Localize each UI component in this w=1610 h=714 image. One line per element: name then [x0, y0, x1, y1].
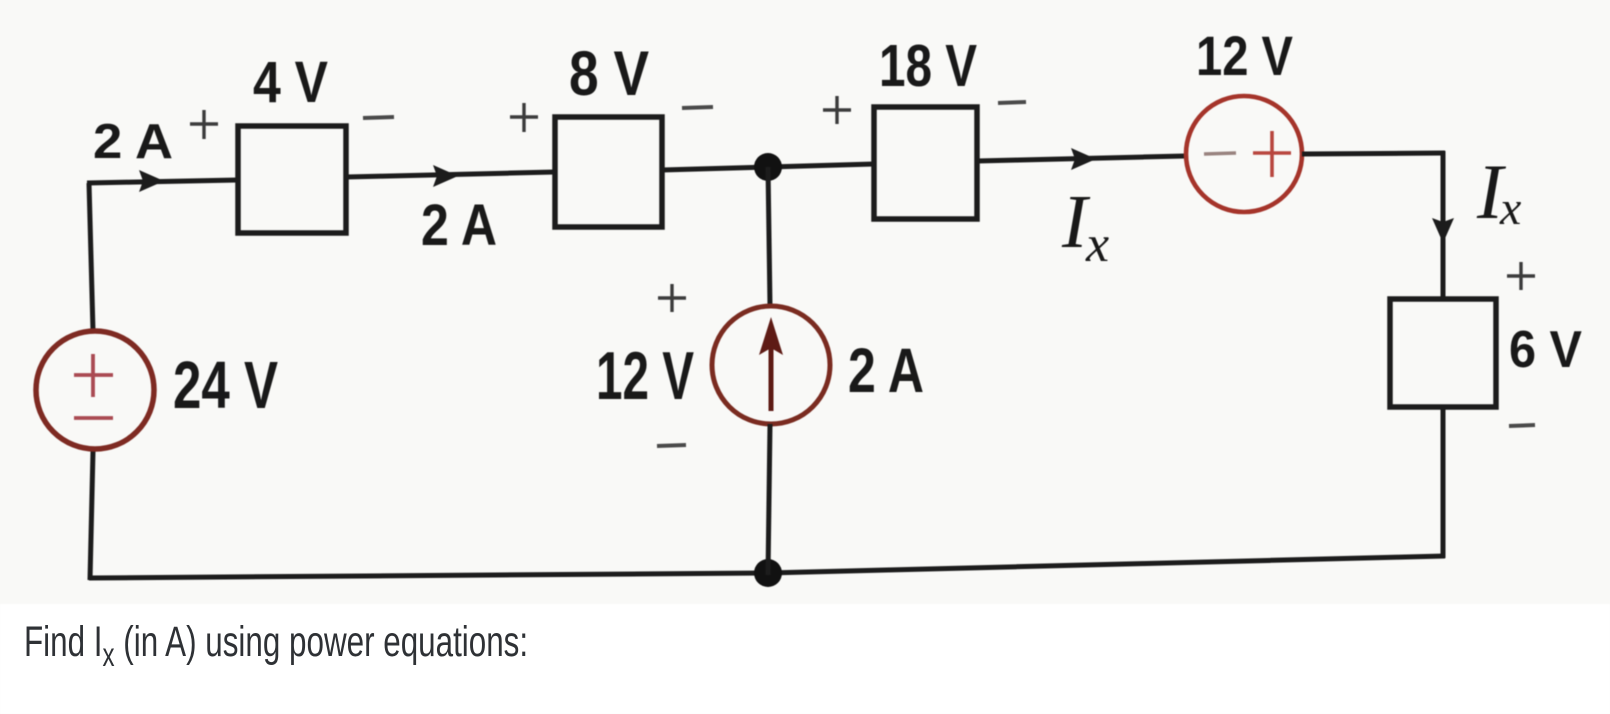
value label 12 V (top right source)	[1196, 24, 1293, 87]
polarity - (right of element 18V)	[998, 102, 1026, 103]
polarity + (left of element 8V)	[510, 103, 538, 132]
wire top-right vertical down to element 6V	[1441, 151, 1446, 300]
element box 4V	[238, 126, 346, 233]
polarity - (right of element 8V)	[682, 107, 713, 108]
element box 18V	[874, 107, 977, 219]
wire left vertical below 24V source	[90, 451, 93, 580]
current arrow 2A (middle, pointing right)	[433, 165, 458, 187]
wire from node A down to current source	[768, 167, 770, 306]
svg-text:12 V: 12 V	[596, 338, 694, 414]
wire from element 8V through node A to element 18V	[662, 164, 874, 170]
svg-text:18 V: 18 V	[879, 33, 977, 99]
svg-text:2 A: 2 A	[93, 115, 173, 169]
label 2 A (top-left)	[93, 115, 173, 169]
wire bottom (right half)	[768, 556, 1445, 573]
value label 6 V	[1509, 321, 1582, 379]
wire from element 18V to source 12V	[977, 156, 1185, 161]
wire from current source down to node B	[768, 424, 770, 575]
wire element 6V down to bottom-right corner	[1441, 407, 1446, 558]
wire top segment from corner to element 4V	[87, 180, 238, 183]
wire top-left vertical (from 24V source up to top-left corner)	[89, 183, 93, 331]
wire from source 12V to top-right corner	[1302, 153, 1445, 154]
label 2 A (below wire)	[421, 193, 497, 258]
svg-text:2 A: 2 A	[421, 193, 497, 258]
wire bottom (left half)	[89, 573, 768, 578]
current arrow 2A (left, pointing right)	[139, 170, 164, 192]
svg-text:6 V: 6 V	[1509, 321, 1582, 379]
node B (bottom junction dot)	[754, 559, 782, 587]
svg-text:2 A: 2 A	[848, 336, 924, 406]
polarity + (above current source, left)	[658, 284, 686, 312]
question text	[24, 618, 528, 674]
wire from element 4V to element 8V	[346, 172, 555, 177]
svg-text:24 V: 24 V	[173, 348, 278, 423]
svg-text:x: x	[1085, 216, 1109, 273]
element box 8V	[555, 117, 662, 227]
value label 18 V	[879, 33, 977, 99]
label 2 A (current source value)	[848, 336, 924, 406]
value label 24 V	[173, 348, 278, 423]
value label 12 V (middle)	[596, 338, 694, 414]
node A (top junction dot)	[754, 153, 782, 181]
polarity + (above element 6V)	[1507, 262, 1535, 290]
value label 8 V	[569, 39, 649, 109]
voltage source 24V (circle, + over -)	[36, 331, 154, 449]
current label Ix (after 18V)	[1061, 180, 1109, 273]
polarity - (right of element 4V)	[363, 117, 394, 118]
svg-text:x: x	[1499, 182, 1521, 235]
current source 2A (circle with up arrow)	[712, 306, 830, 424]
polarity + (left of element 18V)	[823, 96, 851, 124]
value label 4 V	[253, 50, 328, 115]
current arrow Ix (pointing down)	[1432, 218, 1454, 243]
current arrow Ix (pointing right)	[1071, 148, 1096, 170]
element box 6V	[1390, 299, 1496, 407]
voltage source 12V (circle, - +)	[1186, 96, 1302, 212]
polarity + (left of element 4V)	[190, 110, 218, 139]
svg-text:8 V: 8 V	[569, 39, 649, 109]
svg-text:12 V: 12 V	[1196, 24, 1293, 87]
polarity - (below current source, left)	[657, 445, 686, 446]
svg-text:4 V: 4 V	[253, 50, 328, 115]
polarity - (below element 6V)	[1509, 425, 1535, 426]
current label Ix (right side)	[1476, 148, 1521, 235]
